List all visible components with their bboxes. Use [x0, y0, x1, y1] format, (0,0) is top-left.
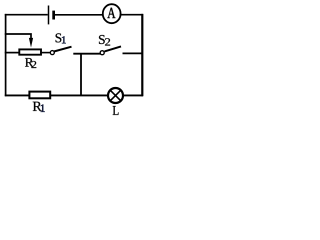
- wire R1 to bottom-left corner: [5, 94, 29, 96]
- lamp cross stroke 1: [110, 90, 121, 101]
- wire S1 to S2 with junction: [73, 53, 100, 55]
- lamp L circle: [108, 88, 123, 103]
- wire left vertical: [5, 14, 7, 96]
- switch S1 pivot circle: [50, 51, 54, 55]
- wire S2 to right wire: [123, 52, 144, 54]
- rheostat R2 box: [19, 49, 41, 54]
- switch S2 label S: [99, 35, 105, 44]
- switch S1 label S: [56, 33, 62, 42]
- rheostat wiper arrowhead: [29, 38, 33, 48]
- lamp cross stroke 2: [110, 90, 121, 101]
- rheostat R2 label R: [25, 58, 33, 67]
- switch S1 label subscript 1: [62, 36, 66, 43]
- battery long thin plate (positive): [48, 6, 50, 25]
- wire right vertical: [141, 14, 143, 96]
- battery short thick plate (negative): [52, 11, 55, 20]
- wire junction vertical: [80, 54, 82, 96]
- wire lamp to R1: [51, 94, 108, 96]
- ammeter letter A: [107, 8, 115, 18]
- wire top-left horizontal (corner to battery): [5, 14, 48, 16]
- resistor R1 box: [29, 92, 50, 99]
- wire R2 box to switch S1: [41, 52, 50, 54]
- wire rheostat wiper branch: [5, 34, 31, 38]
- switch S1 blade: [54, 47, 72, 52]
- switch S2 blade: [105, 46, 122, 51]
- wire left wire to R2 box: [5, 52, 19, 54]
- rheostat R2 label subscript 2: [31, 61, 36, 68]
- switch S2 label subscript 2: [105, 38, 110, 45]
- resistor R1 label subscript 1: [41, 105, 45, 112]
- wire battery to ammeter: [55, 14, 104, 16]
- wire bottom-right (corner to lamp): [124, 94, 144, 96]
- ammeter U1 circle: [103, 4, 121, 23]
- lamp label L: [113, 106, 119, 115]
- wire ammeter to top-right corner: [120, 14, 143, 16]
- resistor R1 label R: [33, 102, 42, 111]
- switch S2 pivot circle: [100, 51, 104, 55]
